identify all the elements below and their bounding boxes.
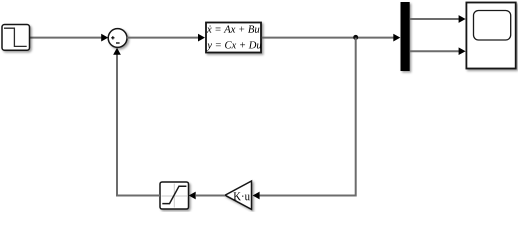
gain block (triangle) — [225, 181, 252, 209]
step source block — [2, 25, 30, 51]
step waveform icon — [4, 28, 27, 46]
wire: Demux out1 to Scope in1 — [410, 18, 461, 20]
state-space equation line 2: y = Cx + Du — [206, 41, 261, 50]
junction node (branch to feedback) — [353, 35, 358, 40]
arrowhead: into Sum - port (pointing up) — [113, 48, 121, 55]
arrowhead: into Sum + port — [101, 34, 108, 42]
sum minus sign — [116, 42, 120, 44]
scope screen — [474, 11, 511, 41]
demux bar — [401, 2, 410, 71]
arrowhead: into Saturation input — [189, 192, 196, 200]
arrowhead: into Demux input — [393, 34, 400, 42]
gain value label K·u — [234, 192, 250, 200]
scope block — [466, 3, 515, 69]
wire: Demux out2 to Scope in2 — [410, 50, 461, 52]
arrowhead: into Scope input 1 — [459, 15, 466, 23]
arrowhead: into Gain input — [253, 192, 260, 200]
wire: State-Space to Demux — [262, 37, 396, 39]
arrowhead: into Scope input 2 — [459, 47, 466, 55]
wire: feedback from junction down and left to Gain — [259, 38, 356, 196]
sum plus sign — [111, 36, 114, 39]
state-space equation line 1: x' = Ax + Bu — [207, 25, 259, 32]
wire: Sum to State-Space — [127, 37, 201, 39]
saturation axes (light gray) — [162, 184, 188, 208]
wire: Gain to Saturation — [196, 195, 225, 197]
saturation curve icon — [162, 186, 186, 203]
saturation block — [160, 182, 189, 209]
wire: Step output to Sum — [30, 37, 105, 39]
wire: Saturation left and up to Sum - port — [117, 53, 160, 196]
arrowhead: into State-Space input — [198, 34, 205, 42]
sum junction (circle) — [108, 29, 127, 48]
state-space block — [206, 23, 261, 53]
